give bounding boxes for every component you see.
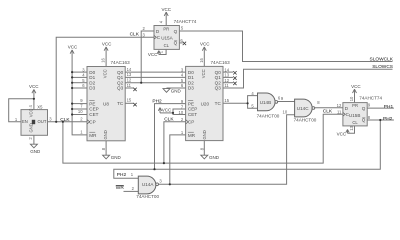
- svg-text:TC: TC: [117, 101, 124, 106]
- wire CLK down branch to bus A: [63, 114, 343, 163]
- wire X5 EN loop to VCC: [9, 99, 34, 122]
- wire U20 CEP CET VCC tie: [173, 109, 186, 115]
- wire U20 PE to PH2 bus: [155, 104, 186, 170]
- svg-text:VCC: VCC: [161, 7, 171, 12]
- svg-text:PH2: PH2: [383, 116, 393, 122]
- svg-text:CET: CET: [188, 112, 197, 117]
- VCC symbol X5: [32, 89, 36, 93]
- wire U8 Q0 to U20 D0: [125, 71, 185, 73]
- wire U20 MR from U14A out: [170, 135, 186, 184]
- wire U8 D3 stub: [72, 87, 87, 89]
- svg-text:74AC163: 74AC163: [211, 60, 231, 65]
- svg-text:13: 13: [127, 72, 132, 77]
- svg-text:EN: EN: [22, 119, 28, 124]
- svg-text:TC: TC: [215, 101, 222, 106]
- svg-text:Q: Q: [362, 118, 366, 123]
- svg-text:D3: D3: [89, 86, 95, 91]
- svg-text:CEP: CEP: [89, 107, 98, 112]
- wire U15B CLR to VCC: [348, 126, 355, 133]
- VCC symbol U15B bottom: [346, 129, 349, 133]
- svg-text:U15A: U15A: [161, 35, 173, 40]
- svg-text:GND: GND: [202, 130, 207, 139]
- svg-text:11: 11: [337, 110, 342, 115]
- nand gate U14B 74AHCT00: [251, 91, 281, 119]
- svg-text:Q2: Q2: [117, 80, 124, 85]
- wire U15A Q to SLOWCLK: [179, 31, 392, 62]
- svg-text:12: 12: [337, 103, 342, 108]
- wire U8 D1 stub: [72, 76, 87, 78]
- svg-text:15: 15: [127, 97, 132, 102]
- svg-text:VCC: VCC: [102, 42, 112, 47]
- wire U8 Q3 nc stub: [125, 87, 134, 89]
- no-connect X U20 Q0: [233, 71, 236, 74]
- wire U20 GND stem: [203, 141, 205, 156]
- svg-text:SLOWCS: SLOWCS: [372, 64, 393, 70]
- no-connect X U20 Q1: [233, 76, 236, 79]
- wire U8 Q2 to U20 D2: [125, 82, 185, 84]
- wire U14C out to U15B D: [315, 107, 343, 109]
- VCC symbol U8 top: [104, 47, 108, 51]
- wire U8 GND stem: [105, 141, 107, 155]
- counter U8 74AC163: [78, 57, 132, 150]
- svg-text:MR: MR: [188, 133, 196, 138]
- wire U15A Qbar nc stub: [179, 42, 182, 44]
- wire U15B Qbar PH2: [367, 119, 394, 121]
- svg-text:D3: D3: [188, 86, 194, 91]
- svg-text:OUT: OUT: [38, 119, 47, 124]
- wire CLK branch to U20 CP: [164, 122, 186, 163]
- svg-text:CP: CP: [188, 120, 194, 125]
- svg-text:X5: X5: [37, 104, 43, 109]
- svg-text:Q: Q: [174, 29, 178, 34]
- svg-text:11: 11: [224, 83, 229, 88]
- svg-text:D0: D0: [188, 70, 194, 75]
- svg-text:D0: D0: [89, 70, 95, 75]
- svg-text:10: 10: [349, 96, 354, 101]
- wire U8 PE stub: [72, 103, 87, 105]
- wire U20 Q1 nc stub: [223, 76, 233, 78]
- wire U8 D2 stub: [72, 82, 87, 84]
- svg-text:Q1: Q1: [117, 75, 124, 80]
- wire U20 D3 to GND: [167, 87, 186, 89]
- svg-text:CLK: CLK: [130, 32, 140, 38]
- svg-text:VCC: VCC: [337, 131, 347, 136]
- wire U15B PR stem: [354, 89, 356, 102]
- svg-text:74AHCT00: 74AHCT00: [294, 118, 317, 123]
- svg-text:GND: GND: [111, 155, 122, 160]
- wire CLK up branch: [56, 37, 154, 122]
- svg-text:13: 13: [349, 125, 354, 130]
- wire U14B out to U14C in9: [278, 101, 295, 103]
- svg-text:74AHCT00: 74AHCT00: [257, 113, 280, 118]
- svg-text:D2: D2: [89, 80, 95, 85]
- wire U14B input tie: [248, 96, 258, 109]
- wire U15B Q PH1: [367, 107, 394, 109]
- svg-text:CL: CL: [352, 120, 358, 125]
- svg-text:PH1: PH1: [384, 104, 394, 110]
- wire U20 Q2 nc stub: [223, 82, 233, 84]
- svg-text:VCC: VCC: [148, 52, 158, 57]
- svg-text:MR: MR: [89, 133, 97, 138]
- svg-text:10: 10: [179, 110, 184, 115]
- svg-text:CLK: CLK: [60, 117, 70, 123]
- svg-text:VCC: VCC: [200, 42, 210, 47]
- svg-text:D2: D2: [188, 80, 194, 85]
- svg-text:Q0: Q0: [117, 70, 124, 75]
- VCC symbol U20 top: [202, 47, 206, 51]
- svg-text:12: 12: [127, 78, 132, 83]
- wire U8 CEP stub: [72, 108, 87, 110]
- wire U15A CLR to VCC: [159, 49, 166, 54]
- svg-text:CL: CL: [164, 43, 170, 48]
- svg-text:U8: U8: [103, 101, 109, 106]
- wire VCC vertical U8: [72, 50, 87, 135]
- wire U8 VCC stem: [105, 48, 107, 67]
- svg-text:12: 12: [224, 78, 229, 83]
- svg-text:Q0: Q0: [215, 70, 222, 75]
- svg-text:U15B: U15B: [349, 113, 361, 118]
- svg-text:74AC163: 74AC163: [111, 60, 131, 65]
- oscillator X5: [15, 104, 52, 139]
- wire U8 Q1 to U20 D1: [125, 76, 185, 78]
- svg-text:VCC: VCC: [29, 84, 39, 89]
- ground U20 D3: [163, 89, 170, 93]
- svg-text:SLOWCLK: SLOWCLK: [370, 56, 394, 62]
- svg-text:GND: GND: [171, 89, 182, 94]
- counter U20 74AC163: [179, 57, 231, 150]
- svg-text:Q2: Q2: [215, 80, 222, 85]
- wire U20 TC to U14B: [223, 102, 248, 104]
- svg-text:15: 15: [224, 98, 229, 103]
- VCC symbol U20 CEP/CET: [158, 108, 161, 113]
- svg-text:PE: PE: [89, 101, 95, 106]
- svg-text:CEP: CEP: [188, 107, 197, 112]
- svg-text:CET: CET: [89, 112, 98, 117]
- wire U14A out to U14C in10: [158, 115, 294, 185]
- svg-text:74AHCT74: 74AHCT74: [359, 95, 382, 100]
- svg-text:Q3: Q3: [117, 86, 124, 91]
- svg-text:CLK: CLK: [164, 117, 174, 123]
- wire U8 TC nc stub: [125, 102, 134, 104]
- svg-text:CLK: CLK: [323, 109, 333, 115]
- svg-text:11: 11: [127, 83, 132, 88]
- no-connect X U8 Q3: [133, 88, 136, 91]
- svg-text:10: 10: [283, 110, 288, 115]
- VCC symbol U8 rail: [70, 50, 74, 54]
- flip-flop U15A 74AHCT74: [143, 19, 197, 53]
- svg-text:16: 16: [101, 57, 106, 62]
- svg-text:U20: U20: [201, 101, 210, 106]
- svg-text:VCC: VCC: [162, 107, 172, 112]
- ground X5: [30, 144, 37, 148]
- wire U20 VCC feed: [160, 112, 173, 114]
- svg-text:GND: GND: [103, 130, 108, 139]
- svg-text:14: 14: [127, 67, 132, 72]
- svg-text:VCC: VCC: [68, 44, 78, 49]
- wire CLK osc OUT to U8 CP: [48, 121, 88, 123]
- svg-text:PR: PR: [352, 103, 358, 108]
- nand gate U14C 74AHCT00: [281, 96, 320, 123]
- svg-text:10: 10: [78, 109, 83, 114]
- svg-text:U14A: U14A: [142, 182, 154, 187]
- svg-text:74AHCT00: 74AHCT00: [136, 194, 159, 199]
- VCC symbol U15A top: [164, 12, 168, 16]
- VCC symbol U15B top: [353, 89, 357, 93]
- svg-text:Q: Q: [174, 41, 178, 46]
- svg-text:U14C: U14C: [297, 106, 309, 111]
- svg-text:WR: WR: [116, 185, 125, 191]
- wire WR stub to U14A: [124, 190, 139, 192]
- wire U20 Q3 to SLOWCS: [223, 69, 393, 88]
- svg-text:PR: PR: [163, 26, 169, 31]
- wire U8 Q2 to U15A D: [141, 31, 154, 83]
- svg-text:VCC: VCC: [28, 108, 33, 117]
- no-connect X U15A Q6: [183, 42, 186, 45]
- svg-text:D1: D1: [188, 75, 194, 80]
- svg-text:13: 13: [224, 73, 229, 78]
- wire X5 VCC stem: [33, 90, 35, 110]
- svg-text:Q1: Q1: [215, 75, 222, 80]
- svg-text:Q3: Q3: [215, 86, 222, 91]
- flip-flop U15B 74AHCT74: [337, 95, 383, 130]
- svg-text:GND: GND: [30, 149, 41, 154]
- no-connect X U8 TC: [133, 103, 136, 106]
- svg-text:CP: CP: [89, 120, 95, 125]
- svg-text:GND: GND: [209, 155, 220, 160]
- svg-text:Q: Q: [362, 106, 366, 111]
- ground U8: [103, 155, 110, 159]
- svg-text:14: 14: [224, 67, 229, 72]
- wire U15A PR stem: [165, 12, 167, 25]
- svg-text:74AHCT74: 74AHCT74: [174, 19, 197, 24]
- svg-text:VCC: VCC: [351, 84, 361, 89]
- svg-text:VCC: VCC: [103, 69, 108, 78]
- wire U8 D0 stub: [72, 71, 87, 73]
- svg-text:VCC: VCC: [201, 69, 206, 78]
- svg-text:U14B: U14B: [260, 100, 272, 105]
- svg-text:PE: PE: [188, 101, 194, 106]
- svg-text:16: 16: [199, 57, 204, 62]
- svg-text:PH2: PH2: [152, 99, 162, 105]
- ground U20: [201, 155, 208, 159]
- svg-text:PH2: PH2: [117, 172, 127, 178]
- wire U20 VCC stem: [203, 48, 205, 67]
- wire PH2 bus B: [114, 120, 381, 178]
- VCC symbol U15A bottom: [157, 51, 160, 55]
- svg-text:D1: D1: [89, 75, 95, 80]
- no-connect X U20 Q2: [233, 82, 236, 85]
- wire U8 CET stub: [72, 114, 87, 116]
- wire X5 GND stem: [33, 135, 35, 144]
- nand gate U14A 74AHCT00: [131, 172, 163, 199]
- svg-text:GND: GND: [28, 123, 33, 132]
- wire U20 Q0 nc stub: [223, 71, 233, 73]
